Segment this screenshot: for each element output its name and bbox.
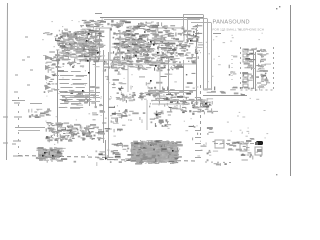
svg-text:FOR 123 SMALL TELEPHONE SCH: FOR 123 SMALL TELEPHONE SCH xyxy=(213,28,265,32)
svg-text:PANASOUND: PANASOUND xyxy=(213,20,250,26)
